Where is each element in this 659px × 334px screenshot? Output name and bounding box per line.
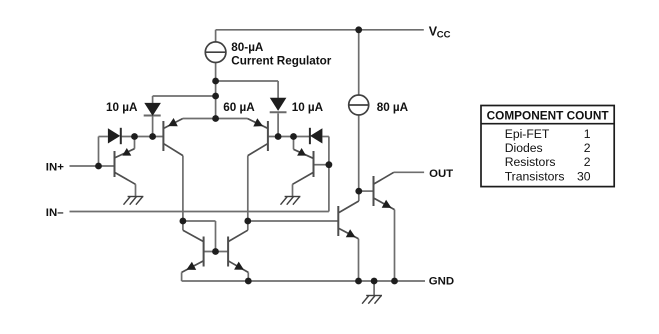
- svg-text:Diodes: Diodes: [505, 141, 543, 155]
- svg-text:Resistors: Resistors: [505, 155, 556, 169]
- svg-text:Current Regulator: Current Regulator: [231, 54, 331, 67]
- svg-text:10 µA: 10 µA: [106, 101, 138, 114]
- svg-text:1: 1: [584, 127, 591, 141]
- svg-text:2: 2: [584, 141, 591, 155]
- svg-text:80-µA: 80-µA: [231, 41, 264, 54]
- svg-text:GND: GND: [429, 276, 454, 288]
- svg-text:2: 2: [584, 155, 591, 169]
- svg-text:10 µA: 10 µA: [292, 101, 324, 114]
- svg-text:IN+: IN+: [46, 162, 64, 174]
- svg-text:80 µA: 80 µA: [377, 101, 409, 114]
- svg-text:60 µA: 60 µA: [223, 101, 255, 114]
- svg-text:COMPONENT COUNT: COMPONENT COUNT: [487, 108, 610, 122]
- svg-text:Transistors: Transistors: [505, 169, 565, 183]
- svg-text:CC: CC: [437, 30, 451, 41]
- svg-text:IN–: IN–: [46, 207, 64, 219]
- svg-text:Epi-FET: Epi-FET: [505, 127, 550, 141]
- svg-text:30: 30: [577, 169, 591, 183]
- svg-text:OUT: OUT: [429, 168, 453, 180]
